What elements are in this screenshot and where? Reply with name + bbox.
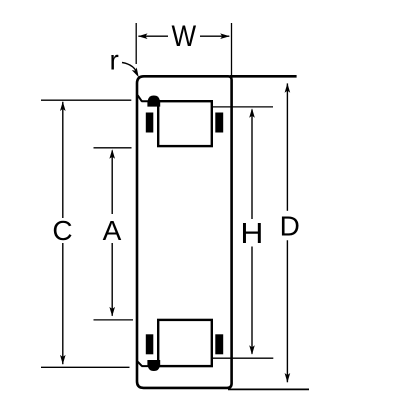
svg-text:W: W: [171, 20, 196, 53]
inner ring top: [158, 101, 212, 146]
H extension top: [212, 106, 273, 108]
H extension bottom: [212, 357, 273, 359]
W arrow left: [138, 33, 148, 39]
A extension top: [94, 147, 132, 149]
roller bottom-right: [215, 334, 223, 354]
D extension top: [230, 75, 297, 78]
A arrow down: [109, 307, 115, 317]
A extension bottom: [94, 319, 134, 321]
top cup lip horizontal: [142, 100, 159, 102]
roller top-right: [215, 113, 223, 133]
W extension line right: [231, 23, 233, 76]
bottom cup lip diagonal: [138, 362, 142, 367]
D extension bottom: [228, 388, 309, 390]
D dimension line: [286, 83, 288, 210]
W extension line left: [135, 23, 137, 64]
svg-text:D: D: [280, 211, 300, 242]
H arrow down: [249, 345, 255, 355]
A dimension line: [111, 151, 113, 215]
seal bottom: [147, 360, 160, 371]
C dimension line: [62, 102, 64, 218]
H arrow up: [249, 108, 255, 118]
D arrow up: [285, 83, 291, 93]
A arrow up: [109, 149, 115, 159]
r leader arrow: [132, 67, 141, 78]
roller bottom-left: [146, 334, 154, 354]
svg-text:H: H: [240, 217, 263, 249]
C arrow down: [60, 355, 66, 365]
svg-text:A: A: [103, 215, 122, 246]
r leader: [122, 63, 136, 72]
C arrow up: [60, 102, 66, 112]
inner ring bottom: [158, 320, 212, 366]
top cup lip diagonal: [138, 95, 142, 101]
D arrow down: [285, 373, 291, 383]
seal top: [147, 96, 160, 107]
W arrow right: [220, 33, 230, 39]
outer cup body: [137, 76, 232, 388]
roller top-left: [146, 113, 154, 133]
svg-text:r: r: [110, 44, 119, 75]
H dimension line: [251, 110, 253, 220]
W dimension line: [138, 35, 168, 37]
bottom cup lip horizontal: [142, 365, 159, 367]
svg-text:C: C: [52, 215, 72, 246]
C extension bottom: [41, 366, 130, 368]
C extension top: [41, 99, 131, 101]
